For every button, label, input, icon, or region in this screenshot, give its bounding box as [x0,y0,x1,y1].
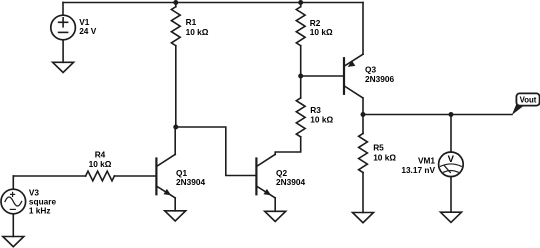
svg-text:R5: R5 [373,143,384,153]
svg-text:Vout: Vout [520,95,537,104]
wire top rail [63,2,363,4]
resistor R5 [359,115,368,213]
wire Q1 collector to Q2 base [176,127,257,176]
voltage source V1 [51,3,76,63]
voltage source V3 [1,176,26,237]
svg-text:2N3906: 2N3906 [365,74,394,84]
transistor Q1 [156,127,175,211]
label V1 [29,17,537,215]
wire output node to Vout [363,114,512,116]
svg-text:10 kΩ: 10 kΩ [373,153,396,163]
svg-text:2N3904: 2N3904 [176,177,205,187]
svg-text:24 V: 24 V [79,26,97,36]
svg-text:1 kHz: 1 kHz [29,205,51,215]
resistor R2 [296,3,305,77]
ground (Q2) [265,211,286,221]
ground (R5) [353,213,374,223]
wire R2/R3 node to Q3 base [301,75,344,77]
ground (Q1) [165,211,186,221]
junction dots [173,0,178,5]
resistor R3 [275,76,305,154]
svg-text:R3: R3 [310,105,321,115]
svg-text:13.17 nV: 13.17 nV [401,165,435,175]
svg-text:R1: R1 [186,17,197,27]
ground (VM1) [441,212,462,222]
Vout callout [512,93,540,115]
svg-text:V: V [448,154,455,165]
ground (V3) [3,237,24,247]
svg-text:2N3904: 2N3904 [276,177,305,187]
voltmeter VM1 [439,115,464,213]
transistor Q2 [256,154,275,211]
resistor R1 [171,3,180,128]
ground (V1) [53,62,74,72]
transistor Q3 [344,3,363,115]
svg-text:10 kΩ: 10 kΩ [310,27,333,37]
svg-text:10 kΩ: 10 kΩ [186,27,209,37]
svg-text:10 kΩ: 10 kΩ [310,115,333,125]
resistor R4 [13,171,156,181]
svg-text:10 kΩ: 10 kΩ [89,159,112,169]
